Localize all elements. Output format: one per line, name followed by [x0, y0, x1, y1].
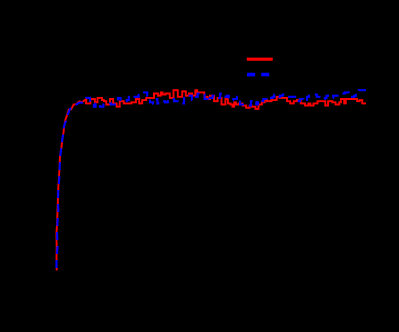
blue dashed curve: [57, 90, 367, 271]
legend red solid line: [247, 58, 273, 61]
legend blue dashed line: [247, 73, 269, 77]
red solid curve: [56, 90, 366, 270]
